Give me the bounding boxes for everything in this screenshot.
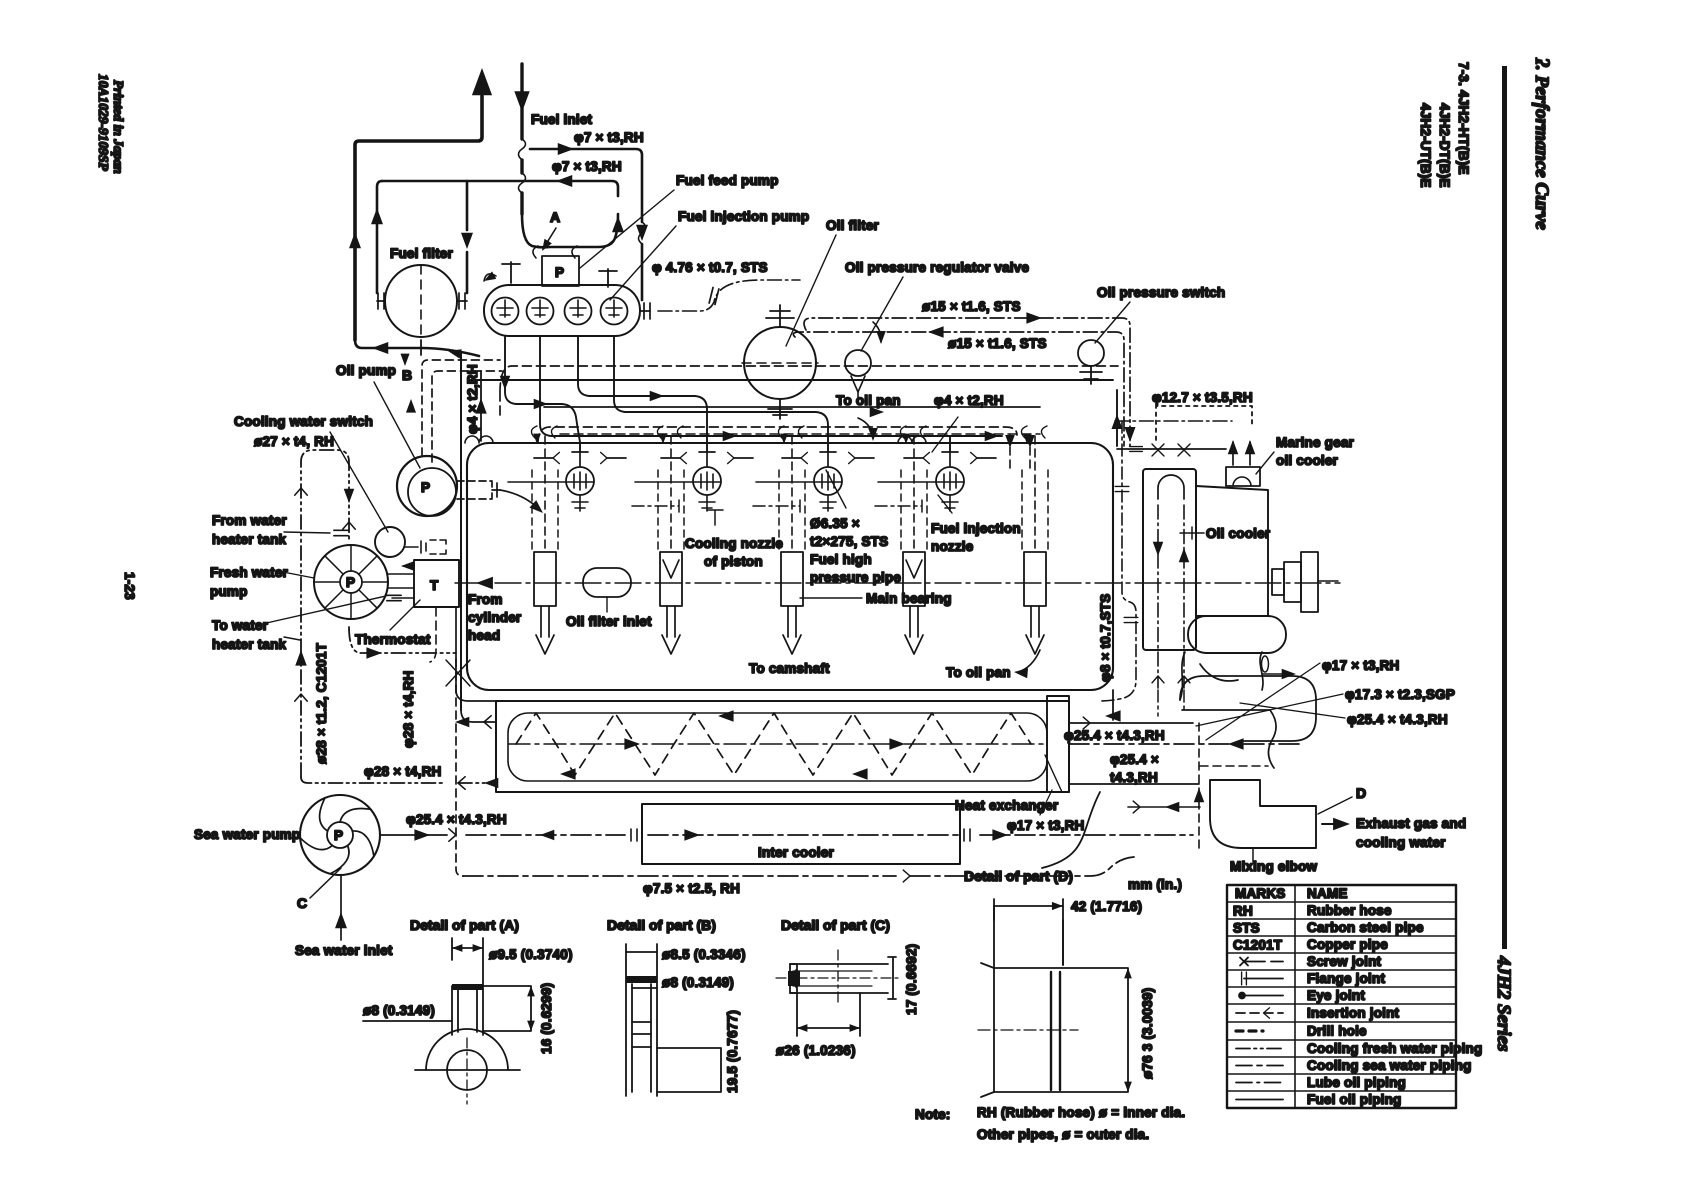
svg-text:φ7.5 × t2.5, RH: φ7.5 × t2.5, RH (643, 881, 740, 896)
svg-text:Fuel feed pump: Fuel feed pump (676, 173, 779, 188)
svg-text:pump: pump (210, 584, 248, 599)
svg-text:19.5 (0.7677): 19.5 (0.7677) (725, 1010, 740, 1093)
main bearing 4 (903, 552, 925, 606)
svg-text:C: C (297, 895, 307, 911)
small drop arrow near regulator (873, 322, 881, 342)
cooling nozzle 3 (814, 467, 842, 495)
exhaust gas out arrow (1322, 823, 1336, 825)
vertical phi4 line with up arrow (480, 371, 482, 441)
injection pump element 1 (492, 298, 519, 325)
fuel filter (385, 265, 457, 337)
pump-thermostat connections (388, 574, 414, 598)
svg-text:φ17.3 × t2.3,SGP: φ17.3 × t2.3,SGP (1345, 687, 1455, 702)
svg-text:φ25.4 ×: φ25.4 × (1110, 752, 1159, 767)
exhaust chamber (1180, 676, 1316, 741)
heat exchanger top flow arrow (530, 720, 1020, 722)
nozzle feed stubs dash-dot (632, 500, 679, 512)
crankshaft centerline (455, 582, 1340, 584)
svg-text:D: D (1356, 785, 1366, 801)
detail A pipe (452, 986, 483, 1035)
thermostat to heater return with arrow (349, 627, 456, 653)
svg-text:Oil cooler: Oil cooler (1206, 526, 1271, 541)
A-loop: inlet down to feed pump pocket (522, 214, 618, 247)
oil pressure regulator valve (845, 350, 871, 376)
heat exchanger centerline (508, 743, 1047, 745)
right side vertical dashed drops (1010, 434, 1030, 470)
svg-text:cooling water: cooling water (1356, 835, 1446, 850)
svg-text:Sea water inlet: Sea water inlet (295, 943, 393, 958)
svg-text:Detail of part (B): Detail of part (B) (607, 917, 716, 933)
svg-text:Copper pipe: Copper pipe (1307, 937, 1388, 952)
svg-text:Oil filter: Oil filter (826, 218, 880, 233)
elbow connection line (1128, 806, 1200, 808)
svg-text:Oil pressure regulator valve: Oil pressure regulator valve (845, 260, 1029, 275)
injector rail fitting 3 (782, 457, 874, 459)
svg-text:NAME: NAME (1307, 886, 1348, 901)
svg-text:ø76 3 (3.0039): ø76 3 (3.0039) (1140, 988, 1155, 1079)
right margin chapter rule (1502, 66, 1507, 949)
oil pump (397, 456, 457, 516)
svg-text:mm (in.): mm (in.) (1128, 877, 1182, 892)
svg-text:Thermostat: Thermostat (355, 632, 431, 647)
thermostat (414, 560, 459, 607)
up/down arrows at engine right (1111, 414, 1122, 429)
detail D dimension 42 (994, 899, 1063, 965)
detail D hose (994, 968, 1128, 1092)
drop to fuel filter right flange (466, 181, 469, 293)
sea water main line (381, 834, 447, 836)
svg-text:heater tank: heater tank (212, 532, 287, 547)
svg-text:P: P (346, 575, 355, 590)
svg-text:Fuel filter: Fuel filter (390, 246, 454, 261)
fuel filter flanges (377, 300, 467, 302)
svg-text:head: head (468, 628, 500, 643)
svg-text:To camshaft: To camshaft (749, 661, 830, 676)
phi28 t4 RH return from HX (301, 777, 496, 783)
svg-text:4JH2-UT(B)E: 4JH2-UT(B)E (1418, 103, 1433, 188)
fuel high pressure pipe 3 (578, 336, 707, 452)
mixing elbow (1210, 780, 1316, 848)
detail B dimension phi 8 (632, 987, 657, 989)
sea water pump (300, 795, 380, 875)
svg-text:RH: RH (1233, 904, 1253, 919)
svg-text:φ8 × t0.7,STS: φ8 × t0.7,STS (1098, 594, 1113, 682)
cooling nozzle 1 (566, 467, 594, 495)
fuel return outlet pipe (vertical, arrow up) (355, 96, 482, 340)
svg-text:ø15 × t1.6, STS: ø15 × t1.6, STS (922, 299, 1021, 314)
svg-text:t2×275, STS: t2×275, STS (810, 534, 888, 549)
svg-text:φ4 × t2,RH: φ4 × t2,RH (934, 393, 1004, 408)
detail A pump housing dome (426, 1029, 508, 1070)
svg-text:φ25.4 × t4.3,RH: φ25.4 × t4.3,RH (406, 812, 507, 827)
chamber inner box (1182, 710, 1276, 768)
fuel filter drain junction to B (355, 340, 479, 356)
detail A dimension 16 (483, 986, 531, 1031)
svg-text:ø8 (0.3149): ø8 (0.3149) (662, 975, 734, 990)
lube oil pipe phi15 upper (804, 318, 1130, 446)
svg-text:T: T (430, 578, 439, 593)
svg-text:ʔ. Performance Curve: ʔ. Performance Curve (1531, 57, 1552, 231)
svg-text:pressure pipe: pressure pipe (810, 570, 901, 585)
inter cooler box (642, 804, 960, 864)
bearing 5 oil drain arrow (1026, 606, 1044, 654)
svg-text:4JH2-DT(B)E: 4JH2-DT(B)E (1437, 103, 1452, 188)
svg-text:of piston: of piston (704, 554, 763, 569)
bearing 4 oil drain arrow (905, 606, 923, 654)
lube oil pipe phi15 lower (793, 332, 1124, 446)
cooling water switch (375, 527, 405, 557)
solid head rail y407 (544, 406, 1040, 408)
cooling nozzle 4 (936, 467, 964, 495)
sea water inlet (340, 875, 342, 940)
svg-text:RH (Rubber hose) ø = inner dia: RH (Rubber hose) ø = inner dia. (977, 1105, 1185, 1120)
svg-text:Carbon steel pipe: Carbon steel pipe (1307, 920, 1424, 935)
svg-text:t4.3,RH: t4.3,RH (1110, 770, 1158, 785)
oil pump suction dashed pair (422, 360, 502, 462)
svg-text:To oil pan: To oil pan (836, 393, 901, 408)
svg-text:ø15 × t1.6, STS: ø15 × t1.6, STS (948, 336, 1047, 351)
fuel high pressure pipe 4 (614, 336, 828, 452)
injection pump element 4 (601, 298, 628, 325)
fuel inlet pipe (vertical, arrow down) (520, 64, 523, 214)
drop to fuel filter left flange (349, 232, 361, 248)
svg-text:φ 4.76 × t0.7, STS: φ 4.76 × t0.7, STS (652, 260, 768, 275)
svg-text:heater tank: heater tank (212, 637, 287, 652)
svg-text:1-23: 1-23 (122, 572, 137, 600)
svg-text:φ25.4 × t4.3,RH: φ25.4 × t4.3,RH (1347, 712, 1448, 727)
flywheel housing (1196, 486, 1268, 616)
feed line across to coolers (1117, 448, 1226, 450)
svg-text:Oil pressure switch: Oil pressure switch (1097, 285, 1225, 300)
svg-text:10A1029-9109SP: 10A1029-9109SP (96, 74, 111, 172)
svg-text:16 (0.6299): 16 (0.6299) (539, 983, 554, 1054)
svg-text:Detail of part (A): Detail of part (A) (410, 917, 519, 933)
svg-text:Marine gear: Marine gear (1276, 435, 1355, 450)
engine mounting vertical line left (460, 352, 462, 710)
callout crossing lines (1196, 663, 1345, 740)
oil filter inlet oval (583, 568, 631, 597)
heat exchanger bottom flow arrow (852, 768, 868, 780)
bearing 3 oil drain arrow (783, 606, 801, 654)
svg-text:Fuel injection: Fuel injection (931, 521, 1021, 536)
svg-text:Cooling nozzle: Cooling nozzle (685, 536, 783, 551)
oil pressure switch (1078, 340, 1104, 366)
detail D callout curve (1042, 792, 1100, 868)
svg-text:ø9.5 (0.3740): ø9.5 (0.3740) (489, 947, 573, 962)
svg-text:Heat exchanger: Heat exchanger (955, 798, 1059, 813)
svg-text:φ7 × t3,RH: φ7 × t3,RH (574, 130, 644, 145)
svg-text:Fuel high: Fuel high (810, 552, 872, 567)
svg-text:To oil pan: To oil pan (946, 665, 1011, 680)
svg-text:From: From (468, 592, 503, 607)
main bearing 5 (1024, 552, 1046, 606)
crank shaft stubs (1272, 569, 1284, 595)
svg-text:φ17 × t3,RH: φ17 × t3,RH (1322, 658, 1400, 673)
oil filter bottom fitting (768, 399, 792, 419)
svg-text:MARKS: MARKS (1235, 886, 1286, 901)
svg-text:φ17 × t3,RH: φ17 × t3,RH (1007, 818, 1085, 833)
thermostat bypass down (430, 607, 436, 662)
cylinder head arrow into thermostat (476, 577, 493, 589)
detail A dimension phi 9.5 (452, 938, 483, 986)
svg-text:Other pipes, ø = outer dia.: Other pipes, ø = outer dia. (977, 1127, 1149, 1142)
feed pump inlet hooks (533, 246, 577, 258)
detail B pipe (626, 944, 657, 1096)
sump blob (1188, 616, 1286, 653)
svg-text:From water: From water (212, 513, 287, 528)
svg-text:Screw joint: Screw joint (1307, 954, 1382, 969)
svg-text:STS: STS (1233, 921, 1260, 936)
injection pump left tee fitting (502, 262, 520, 283)
detail C dimension phi 26 (797, 993, 860, 1036)
fuel high pressure pipe 2 (540, 336, 1002, 452)
svg-text:Main bearing: Main bearing (866, 591, 952, 606)
svg-text:Oil filter inlet: Oil filter inlet (566, 614, 652, 629)
svg-text:ø26 (1.0236): ø26 (1.0236) (776, 1043, 856, 1058)
svg-text:φ25.4 × t4.3,RH: φ25.4 × t4.3,RH (1064, 728, 1165, 743)
svg-text:Cooling sea water piping: Cooling sea water piping (1307, 1058, 1472, 1073)
svg-text:Printed in Japan: Printed in Japan (111, 80, 126, 174)
injection pump element 3 (565, 298, 592, 325)
oil filter top fitting (766, 305, 794, 327)
vertical dashed to elbow (1198, 723, 1200, 850)
injector rail fitting 4 (904, 457, 996, 459)
oil filter (744, 327, 816, 399)
svg-text:nozzle: nozzle (931, 539, 974, 554)
fuel feed pump P (542, 256, 579, 286)
feed pump suction line from filter top via y=140 (466, 181, 468, 293)
svg-text:Fuel inlet: Fuel inlet (531, 112, 593, 127)
oil cooler body (1143, 469, 1196, 650)
svg-text:C1201T: C1201T (1233, 938, 1283, 953)
engine-side oil pipe vertical with flanges (1100, 421, 1136, 701)
svg-text:P: P (334, 828, 343, 843)
svg-text:To water: To water (212, 618, 269, 633)
engine block outline (467, 443, 1113, 690)
fuel high pressure pipe 1 (505, 336, 580, 452)
solid head rail y380 (470, 380, 1117, 446)
svg-text:ø28 × t1.2, C1201T: ø28 × t1.2, C1201T (314, 642, 329, 764)
svg-text:ø8.5 (0.3346): ø8.5 (0.3346) (662, 947, 746, 962)
sea water outlet line phi7.5 (463, 857, 1134, 876)
svg-text:Drill hole: Drill hole (1307, 1024, 1367, 1039)
fuel return line y=181 (382, 181, 618, 196)
svg-text:φ7 × t3,RH: φ7 × t3,RH (552, 159, 622, 174)
main bearing 1 (534, 552, 556, 606)
svg-text:φ28 × t4,RH: φ28 × t4,RH (364, 764, 442, 779)
oil pump outlet dashed (457, 481, 492, 499)
heat exchanger zigzag coil (516, 713, 1031, 775)
svg-text:Cooling water switch: Cooling water switch (234, 414, 373, 429)
vertical drop to sea outlet line (456, 659, 463, 876)
svg-text:ø27 × t4, RH: ø27 × t4, RH (254, 434, 334, 449)
svg-text:Mixing elbow: Mixing elbow (1230, 859, 1317, 874)
svg-text:Fuel oil piping: Fuel oil piping (1307, 1092, 1402, 1107)
svg-text:Lube oil piping: Lube oil piping (1307, 1075, 1406, 1090)
detail D inner tube (994, 906, 1063, 1092)
thermostat inlet arrow (403, 565, 414, 567)
svg-text:7-3. 4JH2-HT(B)E: 7-3. 4JH2-HT(B)E (1456, 62, 1471, 175)
svg-text:Note:: Note: (915, 1107, 951, 1122)
svg-text:φ12.7 × t3.5,RH: φ12.7 × t3.5,RH (1152, 390, 1253, 405)
cooling nozzle 2 (693, 467, 721, 495)
svg-text:ø8 (0.3149): ø8 (0.3149) (363, 1003, 435, 1018)
svg-text:Detail of part (C): Detail of part (C) (781, 917, 890, 933)
injection pump right tee fitting (599, 269, 617, 287)
heat exchanger shell (496, 701, 1069, 792)
svg-text:oil cooler: oil cooler (1276, 453, 1339, 468)
svg-text:Eye joint: Eye joint (1307, 988, 1365, 1003)
heater tank loop pipes (301, 450, 349, 777)
svg-text:φ28 × t4,RH: φ28 × t4,RH (401, 670, 416, 748)
phi17 x t3 RH callout (1262, 673, 1284, 675)
bearing 2 oil drain arrow (662, 606, 680, 654)
injection pump element 2 (527, 298, 554, 325)
svg-text:Oil pump: Oil pump (336, 363, 396, 378)
svg-text:Rubber hose: Rubber hose (1307, 903, 1392, 918)
detail B hose rings (626, 976, 657, 983)
svg-text:Flange joint: Flange joint (1307, 971, 1385, 986)
injector rail fitting 1 (534, 457, 626, 459)
svg-text:4JH2 Series: 4JH2 Series (1493, 955, 1514, 1052)
engine top edge hop marks (465, 436, 493, 443)
svg-text:A: A (550, 209, 560, 225)
svg-text:Ø6.35 ×: Ø6.35 × (810, 516, 860, 531)
dashed oil rail lower (538, 427, 1017, 443)
detail C pipe horizontal (790, 964, 888, 993)
svg-text:Fresh water: Fresh water (210, 565, 289, 580)
svg-text:P: P (421, 480, 430, 495)
legend table frame (1227, 885, 1456, 1108)
svg-text:cylinder: cylinder (468, 610, 522, 625)
svg-text:Inter cooler: Inter cooler (758, 845, 834, 860)
svg-text:B: B (402, 367, 412, 383)
detail B dimension 19.5 (657, 1048, 721, 1092)
main bearing 2 (660, 552, 682, 606)
injection pump right flange (640, 310, 650, 312)
svg-text:Sea water pump: Sea water pump (194, 827, 300, 842)
svg-text:42 (1.7716): 42 (1.7716) (1071, 899, 1142, 914)
exhaust riser (1180, 652, 1263, 700)
injection leak-off dashdot to right (658, 280, 800, 311)
fuel supply line y=149 to injection pump right side (530, 149, 642, 300)
svg-text:17 (0.6692): 17 (0.6692) (904, 944, 919, 1015)
main bearing 3 (781, 552, 803, 606)
detail D centerline (978, 1029, 1078, 1031)
injection pump body (484, 285, 640, 336)
oil pump outlet to main gallery (500, 490, 540, 510)
dashed oil rail upper (to oil pan rail) (500, 366, 1118, 420)
fresh water pump (314, 545, 388, 619)
svg-text:Exhaust gas and: Exhaust gas and (1356, 816, 1466, 831)
svg-text:P: P (555, 265, 564, 280)
bearing 1 oil drain arrow (536, 606, 554, 654)
svg-text:Cooling fresh water piping: Cooling fresh water piping (1307, 1041, 1482, 1056)
injector rail fitting 2 (661, 457, 753, 459)
detail B dimension phi 8.5 (626, 951, 657, 953)
engine to HX left pipes with X crossing (456, 607, 496, 701)
svg-text:Fuel injection pump: Fuel injection pump (678, 209, 809, 224)
detail C dimension 17 (888, 957, 896, 999)
svg-text:Insertion joint: Insertion joint (1307, 1006, 1400, 1021)
heat exchanger right cap (1047, 696, 1069, 792)
svg-text:φ4 × t2,RH: φ4 × t2,RH (465, 364, 480, 434)
marine gear oil cooler (1226, 467, 1260, 486)
